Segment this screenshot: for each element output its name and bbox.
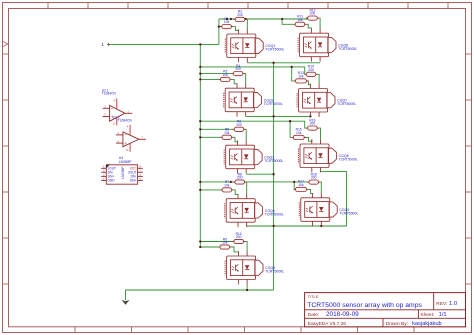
wire R13 to CGQ7 phototransistor (307, 81, 311, 85)
wire bus to R5 (200, 136, 220, 138)
op-amp IC U4 LM358P (101, 156, 143, 184)
svg-text:11: 11 (126, 148, 129, 152)
svg-text:LM358P: LM358P (121, 166, 125, 179)
resistor R8 200 (233, 172, 246, 184)
wire R14 to CGQ7 LED anode (318, 74, 320, 84)
wire R3 to CGQ2 phototransistor (232, 79, 237, 83)
junction R9 tap (199, 246, 201, 248)
optical sensor CGQ5 TCRT5000L (225, 251, 284, 284)
svg-text:TCRT5000L: TCRT5000L (339, 158, 358, 162)
svg-text:10k: 10k (222, 241, 228, 245)
junction R10 tap (199, 240, 201, 242)
junction VCC bus row1-2 (199, 66, 201, 68)
junction CGQ5 cathode (246, 289, 248, 291)
svg-text:−: − (124, 134, 127, 139)
junction R11 tap (281, 18, 283, 20)
wire bus to R9 (200, 246, 218, 248)
resistor R16 200 (306, 118, 319, 130)
svg-text:TITLE:: TITLE: (308, 295, 319, 299)
resistor R12 200 (306, 8, 319, 20)
wire VCC row2-3 to right column (200, 121, 305, 128)
svg-text:200: 200 (310, 12, 316, 16)
svg-text:−: − (111, 107, 114, 112)
wire R16 to CGQ8 LED anode (319, 128, 321, 139)
junction ground bus row1 (272, 62, 274, 64)
junction ground bus row2 (272, 115, 274, 117)
junction VCC bus row3-4 (199, 181, 201, 183)
svg-text:200: 200 (308, 68, 314, 72)
optical sensor CGQ7 TCRT5000L (297, 84, 356, 117)
wire R2 to CGQ1 LED anode (246, 19, 248, 29)
junction VCC bus row2-3 (199, 120, 201, 122)
wire VCC row3-4 long (200, 181, 307, 183)
wire bus to R6 (200, 128, 232, 130)
junction R1 tap (218, 25, 220, 27)
resistor R13 10k (294, 71, 309, 83)
wire R17 to CGQ9 phototransistor (308, 189, 312, 193)
junction top row b (230, 18, 232, 20)
junction ground bus row4 (272, 225, 274, 227)
resistor R3 10k (219, 70, 232, 82)
svg-text:10k: 10k (298, 74, 304, 78)
op-amp U2.2 TL084CN (113, 115, 146, 152)
wire R7 to CGQ4 phototransistor (233, 190, 238, 195)
junction row3-4 mid (230, 181, 232, 183)
wire VCC row1-2 to right column (200, 67, 304, 74)
optical sensor CGQ3 TCRT5000L (224, 140, 283, 173)
resistor R2 200 (233, 10, 246, 22)
junction top row a (226, 18, 228, 20)
wire row3 cathode link (246, 173, 273, 175)
wire R15 to CGQ8 phototransistor (305, 137, 312, 141)
svg-text:Date:: Date: (308, 312, 319, 318)
svg-text:10k: 10k (223, 73, 229, 77)
resistor R5 10k (220, 128, 233, 140)
svg-text:10k: 10k (296, 131, 302, 135)
wire row4 cathode bus (247, 225, 347, 227)
svg-text:1/1: 1/1 (439, 312, 447, 318)
optical sensor CGQ9 TCRT5000L (299, 193, 358, 226)
wire R8 to CGQ4 LED anode (245, 182, 247, 194)
svg-text:EasyEDA V5.7.26: EasyEDA V5.7.26 (308, 321, 346, 327)
wire bus to R10 (200, 241, 232, 243)
svg-text:Sheet:: Sheet: (420, 312, 434, 318)
wire branch to R13 (292, 67, 294, 81)
svg-text:200: 200 (235, 67, 241, 71)
resistor R4 200 (232, 64, 245, 76)
resistor R15 10k (291, 128, 306, 140)
svg-text:GND: GND (108, 179, 116, 183)
junction R15 tap (289, 120, 291, 122)
svg-text:TCRT5000L: TCRT5000L (265, 48, 284, 52)
wire CGQ5 cathode drop (246, 284, 248, 290)
optical sensor CGQ4 TCRT5000L (225, 194, 284, 227)
wire R1 output s-bend (233, 27, 238, 31)
wire ground run (126, 289, 274, 291)
wire net 1 horizontal run (109, 43, 219, 45)
junction R4 tap (199, 72, 201, 74)
wire branch to R11 (282, 19, 293, 24)
wire R9 to CGQ5 phototransistor (231, 247, 238, 252)
svg-text:TCRT5000L: TCRT5000L (339, 212, 358, 216)
resistor R7 10k (220, 180, 233, 192)
svg-text:TCRT5000L: TCRT5000L (338, 47, 357, 51)
wire R12 to CGQ6 LED anode (319, 18, 320, 29)
junction R17 tap (293, 181, 295, 183)
wire R18 to CGQ9 LED anode (320, 182, 321, 193)
svg-text:10k: 10k (224, 131, 230, 135)
op-amp U2.1 TL084CN (102, 88, 133, 125)
wire R11 to CGQ6 phototransistor (307, 24, 312, 28)
svg-text:TL084CN: TL084CN (102, 92, 117, 96)
svg-text:10k: 10k (224, 183, 230, 187)
svg-text:REV:: REV: (436, 301, 447, 307)
wire row1 cathode bus (247, 62, 320, 64)
junction CGQ7 pin row2 (309, 115, 311, 117)
junction CGQ9 cathode (320, 225, 322, 227)
svg-text:TCRT5000L: TCRT5000L (337, 102, 356, 106)
junction net1/VCC bus (199, 43, 201, 45)
svg-text:LM358P: LM358P (119, 160, 132, 164)
svg-text:200: 200 (237, 13, 243, 17)
wire top VCC row 1 (219, 18, 308, 20)
junction R13 tap (291, 66, 293, 68)
optical sensor CGQ1 TCRT5000L (225, 29, 284, 62)
svg-text:200: 200 (236, 123, 242, 127)
junction R3 tap (199, 78, 201, 80)
wire branch to R15 (290, 121, 291, 137)
svg-text:1.0: 1.0 (449, 301, 457, 307)
svg-text:10k: 10k (297, 18, 303, 22)
wire R5 to CGQ3 phototransistor (233, 137, 237, 142)
svg-text:200: 200 (310, 122, 316, 126)
svg-text:TCRT5000L: TCRT5000L (265, 270, 284, 274)
wire branch to R17 (293, 182, 296, 190)
svg-text:2IN+: 2IN+ (130, 179, 137, 183)
svg-text:kasjakjakub: kasjakjakub (412, 321, 442, 327)
junction R7 tap (199, 189, 201, 191)
svg-text:TCRT5000L: TCRT5000L (265, 212, 284, 216)
resistor R14 200 (304, 65, 317, 77)
svg-text:10k: 10k (298, 183, 304, 187)
wire bus to R7 (200, 189, 220, 191)
title block (305, 293, 466, 327)
resistor R6 200 (232, 120, 245, 132)
ground symbol (122, 300, 130, 305)
svg-text:200: 200 (311, 176, 317, 180)
optical sensor CGQ2 TCRT5000L (224, 83, 283, 116)
junction CGQ1 anode tap (245, 18, 247, 20)
svg-text:TCRT5000 sensor array with op: TCRT5000 sensor array with op amps (307, 302, 422, 309)
wire row2 cathode bus (246, 115, 311, 117)
wire ground stem (125, 290, 127, 300)
net port 1 (102, 42, 111, 47)
resistor R18 200 (307, 172, 320, 184)
wire middle ground bus (273, 63, 275, 290)
svg-text:TCRT5000L: TCRT5000L (264, 159, 283, 163)
svg-text:200: 200 (237, 176, 243, 180)
wire net 1 riser to VCC row (218, 19, 220, 44)
resistor R17 10k (294, 180, 309, 192)
wire R6 to CGQ3 LED anode (245, 129, 248, 140)
svg-text:2018-09-09: 2018-09-09 (326, 311, 359, 318)
wire bus to R4 (200, 73, 231, 75)
optical sensor CGQ6 TCRT5000L (298, 28, 357, 61)
wire R4 to CGQ2 LED anode (245, 74, 246, 84)
svg-text:+: + (124, 142, 127, 147)
junction ground bus row3 (272, 173, 274, 175)
svg-text:200: 200 (236, 235, 242, 239)
junction R5 tap (199, 136, 201, 138)
svg-text:TL084CN: TL084CN (118, 119, 133, 123)
junction R6 tap (199, 128, 201, 130)
svg-text:TCRT5000L: TCRT5000L (264, 102, 283, 106)
svg-text:Drawn By:: Drawn By: (386, 321, 408, 327)
wire CGQ8 cathode return (321, 172, 347, 226)
resistor R9 10k (218, 237, 231, 249)
wire R10 to CGQ5 LED anode (245, 242, 247, 252)
wire main VCC bus vertical (199, 44, 201, 247)
svg-text:10k: 10k (224, 20, 230, 24)
optical sensor CGQ8 TCRT5000L (299, 139, 358, 172)
resistor R1 10k (220, 17, 233, 29)
resistor R10 200 (232, 232, 245, 244)
wire bus to R3 (200, 78, 218, 80)
resistor R11 10k (293, 15, 306, 27)
